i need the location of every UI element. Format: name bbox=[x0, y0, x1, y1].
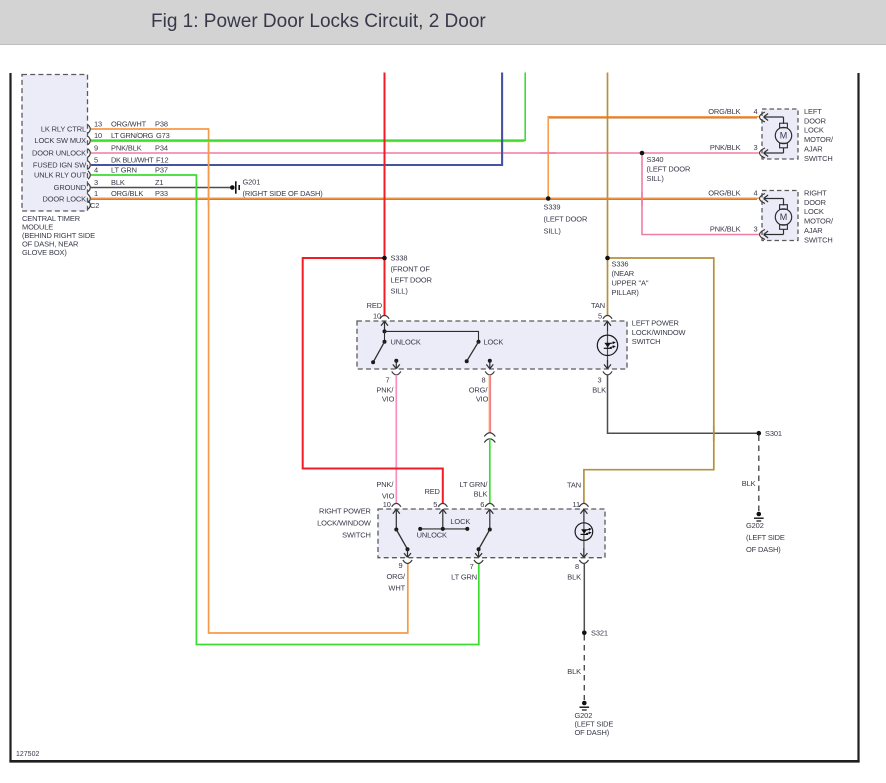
svg-text:SWITCH: SWITCH bbox=[804, 154, 833, 163]
right switch pin 8 exit arrow bbox=[580, 548, 587, 557]
left switch illumination LED lamp bbox=[597, 335, 617, 355]
svg-text:LEFT DOOR: LEFT DOOR bbox=[391, 275, 433, 284]
left switch pin 7 contact node bbox=[394, 359, 398, 363]
CTM pin 10 connector arc bbox=[88, 136, 90, 144]
left switch pin 8 exit arc bbox=[485, 371, 494, 375]
svg-text:VIO: VIO bbox=[382, 395, 395, 404]
right switch UNLOCK pivot node bbox=[394, 528, 398, 532]
svg-text:3: 3 bbox=[597, 375, 601, 384]
svg-text:LOCK/WINDOW: LOCK/WINDOW bbox=[317, 519, 371, 528]
left switch UNLOCK switch arm SW1 bbox=[373, 342, 384, 363]
svg-text:ORG/WHT: ORG/WHT bbox=[111, 120, 147, 129]
svg-text:RIGHT: RIGHT bbox=[804, 188, 827, 197]
svg-text:DOOR UNLOCK: DOOR UNLOCK bbox=[32, 149, 86, 158]
svg-text:M: M bbox=[780, 212, 788, 222]
svg-text:LT GRN: LT GRN bbox=[111, 166, 137, 175]
wire LT GRN/ORG G73 from CTM pin 10 to top edge bbox=[91, 73, 525, 141]
right switch illumination LED lamp bbox=[575, 523, 593, 541]
splice S340 bbox=[640, 151, 645, 156]
frame right border bbox=[857, 73, 859, 762]
svg-text:8: 8 bbox=[575, 562, 579, 571]
left door lock motor M1 bbox=[775, 117, 791, 153]
svg-text:GLOVE BOX): GLOVE BOX) bbox=[22, 248, 67, 257]
ground G201 symbol bbox=[230, 181, 240, 193]
svg-text:PILLAR): PILLAR) bbox=[612, 288, 640, 297]
svg-text:BLK: BLK bbox=[474, 490, 488, 499]
left switch pin 5 entry arc bbox=[603, 315, 612, 318]
splice S301 bbox=[757, 431, 762, 436]
svg-text:ORG/BLK: ORG/BLK bbox=[708, 188, 740, 197]
svg-text:M: M bbox=[780, 131, 788, 141]
svg-text:SILL): SILL) bbox=[647, 174, 665, 183]
svg-text:8: 8 bbox=[481, 375, 485, 384]
right motor pin 4 arrow bbox=[764, 195, 784, 202]
left switch internal wire junction to UNLOCK pivot bbox=[384, 331, 386, 341]
wire BLK from left switch pin 3 to splice S301 bbox=[608, 375, 757, 433]
svg-text:S321: S321 bbox=[591, 628, 608, 637]
svg-text:P38: P38 bbox=[155, 120, 168, 129]
wire PNK/BLK branch from splice S340 to right door lock motor pin 3 bbox=[642, 153, 759, 235]
right switch pin 10 entry arc bbox=[392, 503, 401, 506]
left switch UNLOCK pivot node bbox=[383, 340, 387, 344]
svg-text:UNLK RLY OUT: UNLK RLY OUT bbox=[34, 171, 87, 180]
left switch illumination lamp wire through bbox=[607, 331, 609, 369]
svg-text:DOOR LOCK: DOOR LOCK bbox=[42, 195, 86, 204]
left power lock/window switch box bbox=[357, 321, 627, 369]
svg-text:OF DASH): OF DASH) bbox=[746, 545, 781, 554]
svg-text:AJAR: AJAR bbox=[804, 226, 823, 235]
svg-text:UPPER "A": UPPER "A" bbox=[612, 278, 649, 287]
svg-text:LOCK/WINDOW: LOCK/WINDOW bbox=[632, 328, 686, 337]
svg-text:ORG/: ORG/ bbox=[469, 385, 489, 394]
svg-text:AJAR: AJAR bbox=[804, 145, 823, 154]
svg-text:LOCK SW MUX: LOCK SW MUX bbox=[34, 136, 86, 145]
svg-text:LOCK: LOCK bbox=[484, 337, 504, 346]
svg-text:DOOR: DOOR bbox=[804, 116, 827, 125]
right switch selector bar bbox=[418, 527, 469, 531]
svg-text:LT GRN/: LT GRN/ bbox=[459, 480, 488, 489]
left motor pin 3 connector arc bbox=[760, 148, 766, 158]
right switch pin 11 entry arc bbox=[579, 503, 588, 506]
svg-text:PNK/: PNK/ bbox=[376, 480, 394, 489]
svg-text:9: 9 bbox=[398, 561, 402, 570]
svg-text:UNLOCK: UNLOCK bbox=[391, 337, 421, 346]
svg-text:Fig 1: Power Door Locks Circui: Fig 1: Power Door Locks Circuit, 2 Door bbox=[151, 11, 486, 32]
svg-text:11: 11 bbox=[573, 500, 580, 509]
svg-text:G202: G202 bbox=[746, 521, 764, 530]
svg-text:13: 13 bbox=[94, 120, 102, 129]
splice S339 label bbox=[544, 203, 588, 236]
left switch pin 10 entry arrow bbox=[381, 321, 388, 331]
svg-text:DK BLU/WHT: DK BLU/WHT bbox=[111, 156, 154, 165]
CTM pin 5 connector arc bbox=[88, 161, 90, 169]
right switch UNLOCK arm end node bbox=[406, 547, 410, 551]
left switch pin 7 exit arrow bbox=[393, 361, 400, 369]
wire RED stub from top edge to splice S338 bbox=[384, 73, 386, 259]
splice S338 label bbox=[391, 254, 433, 296]
left switch internal junction node bbox=[383, 329, 387, 333]
left switch internal wire junction to LOCK pivot bbox=[385, 331, 479, 341]
wire ORG/BLK branch dark tracer stripe bbox=[549, 117, 757, 119]
right switch pin 6 entry arrow bbox=[486, 509, 493, 529]
svg-text:S340: S340 bbox=[647, 155, 664, 164]
svg-text:7: 7 bbox=[470, 562, 474, 571]
CTM connector C2 arc bbox=[88, 201, 90, 209]
central timer module box bbox=[22, 75, 88, 212]
left switch pin 10 entry arc bbox=[380, 315, 389, 318]
svg-text:BLK: BLK bbox=[742, 479, 756, 488]
svg-text:BLK: BLK bbox=[567, 573, 581, 582]
left motor pin 3 arrow bbox=[764, 150, 784, 157]
svg-text:9: 9 bbox=[94, 144, 98, 153]
left power lock/window switch caption bbox=[632, 319, 686, 346]
svg-text:RIGHT POWER: RIGHT POWER bbox=[319, 507, 372, 516]
PNK/VIO wire label at right switch pin 10 bbox=[376, 480, 394, 501]
left door lock motor box bbox=[762, 109, 798, 159]
CTM pin 3 connector arc bbox=[88, 183, 90, 191]
frame left border bbox=[9, 73, 11, 762]
ORG/VIO wire label bbox=[469, 385, 489, 403]
svg-text:BLK: BLK bbox=[567, 667, 581, 676]
svg-text:(LEFT SIDE: (LEFT SIDE bbox=[746, 533, 785, 542]
wire PNK/VIO from left switch pin 7 to right power switch pin 10 bbox=[395, 375, 397, 504]
CTM pin 13 connector arc bbox=[88, 125, 90, 133]
svg-text:P37: P37 bbox=[155, 166, 168, 175]
CTM pin 1 connector arc bbox=[88, 194, 90, 202]
right power lock/window switch box bbox=[378, 509, 605, 558]
svg-text:S339: S339 bbox=[544, 203, 561, 212]
svg-text:LOCK: LOCK bbox=[450, 517, 470, 526]
svg-text:SWITCH: SWITCH bbox=[342, 531, 371, 540]
svg-text:6: 6 bbox=[480, 500, 484, 509]
right motor pin 3 connector arc bbox=[760, 230, 766, 240]
wire TAN from splice S336 down to left power switch pin 5 bbox=[607, 258, 609, 316]
svg-text:SILL): SILL) bbox=[544, 226, 562, 235]
ORG/WHT wire label at right switch pin 9 bbox=[386, 572, 406, 593]
right switch pin 8 exit arc bbox=[579, 560, 588, 564]
svg-text:LOCK: LOCK bbox=[804, 207, 824, 216]
svg-text:S301: S301 bbox=[765, 429, 782, 438]
svg-text:OF DASH): OF DASH) bbox=[575, 728, 610, 737]
svg-text:7: 7 bbox=[385, 375, 389, 384]
svg-text:P34: P34 bbox=[155, 144, 168, 153]
wire PNK/BLK P34 from CTM pin 9 to left door lock motor pin 3 bbox=[91, 152, 759, 154]
svg-text:BLK: BLK bbox=[592, 385, 606, 394]
right switch illumination lamp wire through bbox=[583, 521, 585, 557]
wire ORG/VIO violet tracer stripe bbox=[490, 375, 492, 433]
right switch pin 9 exit arc bbox=[403, 560, 412, 564]
left motor pin 4 connector arc bbox=[760, 112, 766, 122]
right switch LOCK arm end node bbox=[477, 547, 481, 551]
right switch pin 5 entry arc bbox=[438, 503, 447, 506]
left switch UNLOCK arm end node bbox=[371, 360, 375, 364]
right switch pin 5 entry arrow bbox=[439, 509, 446, 529]
right switch LOCK switch arm SW4 bbox=[479, 530, 490, 550]
svg-text:1: 1 bbox=[94, 189, 98, 198]
svg-text:LEFT: LEFT bbox=[804, 107, 822, 116]
svg-text:PNK/: PNK/ bbox=[376, 385, 394, 394]
svg-text:P33: P33 bbox=[155, 189, 168, 198]
svg-text:LK RLY CTRL: LK RLY CTRL bbox=[41, 125, 86, 134]
ground G201 label bbox=[243, 178, 324, 199]
wire ORG/WHT vertical overlay at crossings bbox=[208, 144, 210, 206]
left switch LOCK switch arm SW2 bbox=[467, 342, 479, 361]
wire ORG/BLK dark tracer stripe bbox=[91, 198, 757, 200]
CTM pin 4 connector arc bbox=[88, 171, 90, 179]
svg-text:PNK/BLK: PNK/BLK bbox=[111, 144, 142, 153]
svg-text:S338: S338 bbox=[391, 254, 408, 263]
right door lock motor box bbox=[762, 191, 798, 241]
wire TAN from splice S336 to right power switch pin 11 bbox=[584, 258, 714, 504]
svg-text:3: 3 bbox=[753, 143, 757, 152]
wire ORG/BLK branch from splice S339 to left door lock motor pin 4 bbox=[548, 117, 759, 198]
right switch pin 11 entry arrow bbox=[580, 509, 587, 521]
svg-text:4: 4 bbox=[753, 188, 757, 197]
frame bottom border bbox=[9, 760, 859, 763]
svg-text:PNK/BLK: PNK/BLK bbox=[710, 224, 741, 233]
splice S338 bbox=[382, 256, 387, 261]
title bar bbox=[0, 0, 886, 45]
svg-text:LEFT POWER: LEFT POWER bbox=[632, 319, 680, 328]
wire LT GRN P37 from CTM pin 4 to right power switch pin 7 bbox=[91, 175, 479, 645]
svg-text:PNK/BLK: PNK/BLK bbox=[710, 143, 741, 152]
svg-text:SILL): SILL) bbox=[391, 286, 409, 295]
wire TAN stub from top edge to splice S336 bbox=[607, 73, 609, 259]
wire TAN vertical overlay at splice S301 wire crossing bbox=[713, 426, 715, 441]
right switch UNLOCK switch arm SW3 bbox=[396, 530, 407, 550]
svg-text:10: 10 bbox=[373, 311, 381, 320]
left switch LOCK pivot node bbox=[477, 340, 481, 344]
svg-text:4: 4 bbox=[94, 166, 98, 175]
dashed BLK wire from S321 to ground G202 bbox=[583, 635, 585, 700]
left motor pin 4 arrow bbox=[764, 114, 784, 121]
ground G202 right symbol bbox=[754, 512, 764, 521]
svg-text:RED: RED bbox=[367, 301, 383, 310]
svg-text:TAN: TAN bbox=[591, 301, 605, 310]
svg-text:S336: S336 bbox=[612, 260, 629, 269]
svg-text:MOTOR/: MOTOR/ bbox=[804, 217, 834, 226]
svg-text:SWITCH: SWITCH bbox=[804, 235, 833, 244]
svg-text:127502: 127502 bbox=[16, 751, 39, 758]
right door lock motor M2 bbox=[775, 199, 791, 235]
right switch pin 7 exit arc bbox=[474, 560, 483, 564]
svg-text:G201: G201 bbox=[243, 178, 261, 187]
right switch pin 10 entry arrow bbox=[393, 509, 400, 529]
left switch pin 3 exit arrow bbox=[604, 360, 611, 369]
ground G202 bottom label bbox=[575, 711, 614, 737]
svg-text:ORG/BLK: ORG/BLK bbox=[708, 107, 740, 116]
wire LT GRN vertical overlay at crossings bbox=[195, 182, 197, 205]
svg-text:3: 3 bbox=[753, 224, 757, 233]
wire BLK Z1 from CTM pin 3 to ground G201 bbox=[91, 187, 231, 189]
right motor pin 4 connector arc bbox=[760, 194, 766, 204]
right switch pin 9 exit arrow bbox=[404, 549, 411, 557]
svg-text:BLK: BLK bbox=[111, 178, 125, 187]
right switch LOCK pivot node bbox=[488, 528, 492, 532]
left switch pin 7 exit arc bbox=[392, 371, 401, 375]
wire DK BLU/WHT F12 from CTM pin 5 to top edge bbox=[91, 73, 502, 166]
svg-text:SWITCH: SWITCH bbox=[632, 337, 661, 346]
wire LT GRN/BLK from inline connector to right power switch pin 6 bbox=[489, 439, 491, 505]
svg-text:VIO: VIO bbox=[476, 395, 489, 404]
right switch pin 7 exit arrow bbox=[475, 549, 482, 557]
right motor pin 3 arrow bbox=[764, 231, 784, 238]
left door lock motor caption bbox=[804, 107, 834, 163]
splice S336 bbox=[605, 256, 610, 261]
svg-text:3: 3 bbox=[94, 178, 98, 187]
svg-text:Z1: Z1 bbox=[155, 178, 163, 187]
inline connector break in wire at pin 8 run bbox=[484, 433, 495, 443]
svg-text:ORG/: ORG/ bbox=[386, 572, 406, 581]
wire PNK/BLK overlay at ORG/BLK branch crossing bbox=[540, 152, 556, 154]
left switch LOCK arm end node bbox=[465, 359, 469, 363]
svg-text:DOOR: DOOR bbox=[804, 198, 827, 207]
wire ORG/VIO from left switch pin 8 to inline connector bbox=[488, 375, 490, 433]
splice S340 label bbox=[647, 155, 691, 183]
svg-text:WHT: WHT bbox=[388, 584, 405, 593]
svg-text:LT GRN: LT GRN bbox=[451, 573, 477, 582]
CTM pin 9 connector arc bbox=[88, 149, 90, 157]
PNK/VIO wire label bbox=[376, 385, 394, 403]
svg-text:UNLOCK: UNLOCK bbox=[417, 531, 447, 540]
CTM caption bbox=[22, 214, 95, 257]
wire ORG/BLK P33 from CTM pin 1 to right door lock motor pin 4 bbox=[91, 197, 759, 199]
svg-text:TAN: TAN bbox=[567, 481, 581, 490]
svg-text:4: 4 bbox=[753, 107, 757, 116]
wire RED from splice S338 down to left power switch pin 10 bbox=[384, 258, 386, 316]
wire BLK from right switch pin 8 to splice S321 bbox=[583, 563, 585, 633]
svg-text:(LEFT DOOR: (LEFT DOOR bbox=[544, 215, 588, 224]
svg-text:RED: RED bbox=[424, 487, 440, 496]
svg-text:(NEAR: (NEAR bbox=[612, 269, 635, 278]
svg-text:10: 10 bbox=[383, 500, 391, 509]
splice S336 label bbox=[612, 260, 649, 297]
right switch pin 6 entry arc bbox=[485, 503, 494, 506]
right door lock motor caption bbox=[804, 188, 834, 244]
svg-text:G73: G73 bbox=[156, 131, 170, 140]
splice S339 bbox=[546, 196, 551, 201]
svg-text:GROUND: GROUND bbox=[54, 183, 87, 192]
left switch pin 3 exit arc bbox=[603, 371, 612, 375]
svg-text:(LEFT DOOR: (LEFT DOOR bbox=[647, 164, 691, 173]
svg-text:10: 10 bbox=[94, 131, 102, 140]
wire RED horizontal overlay at PNK/VIO crossing bbox=[389, 468, 404, 470]
svg-text:F12: F12 bbox=[156, 156, 168, 165]
wire RED from splice S338 left and down to right power switch pin 5 bbox=[303, 258, 443, 504]
ground G202 right label bbox=[746, 521, 785, 554]
wire LT GRN/ORG orange tracer stripe bbox=[91, 141, 524, 143]
svg-text:5: 5 bbox=[433, 500, 437, 509]
LT GRN/BLK wire label at right switch pin 6 bbox=[459, 480, 488, 499]
ground G202 bottom symbol bbox=[580, 701, 590, 710]
svg-text:LOCK: LOCK bbox=[804, 126, 824, 135]
svg-text:MOTOR/: MOTOR/ bbox=[804, 135, 834, 144]
svg-text:ORG/BLK: ORG/BLK bbox=[111, 189, 143, 198]
left switch pin 8 contact node bbox=[488, 359, 492, 363]
svg-text:FUSED IGN SW: FUSED IGN SW bbox=[33, 161, 86, 170]
wire ORG/WHT P38 from CTM pin 13 to right power switch pin 9 bbox=[91, 129, 408, 633]
right power lock/window switch caption bbox=[317, 507, 371, 540]
svg-text:5: 5 bbox=[94, 156, 98, 165]
dashed BLK wire from S301 to ground G202 right bbox=[758, 436, 760, 512]
svg-text:C2: C2 bbox=[90, 201, 99, 210]
svg-text:5: 5 bbox=[598, 311, 602, 320]
wire PNK/BLK S340 vertical overlay at ORG/BLK crossing bbox=[641, 192, 643, 206]
svg-text:LT GRN/ORG: LT GRN/ORG bbox=[111, 131, 154, 140]
left switch pin 5 entry arrow bbox=[604, 321, 611, 331]
svg-text:(FRONT OF: (FRONT OF bbox=[391, 265, 431, 274]
left switch pin 8 exit arrow bbox=[486, 361, 493, 369]
svg-text:(RIGHT SIDE OF DASH): (RIGHT SIDE OF DASH) bbox=[243, 189, 324, 198]
splice S321 bbox=[582, 631, 587, 636]
